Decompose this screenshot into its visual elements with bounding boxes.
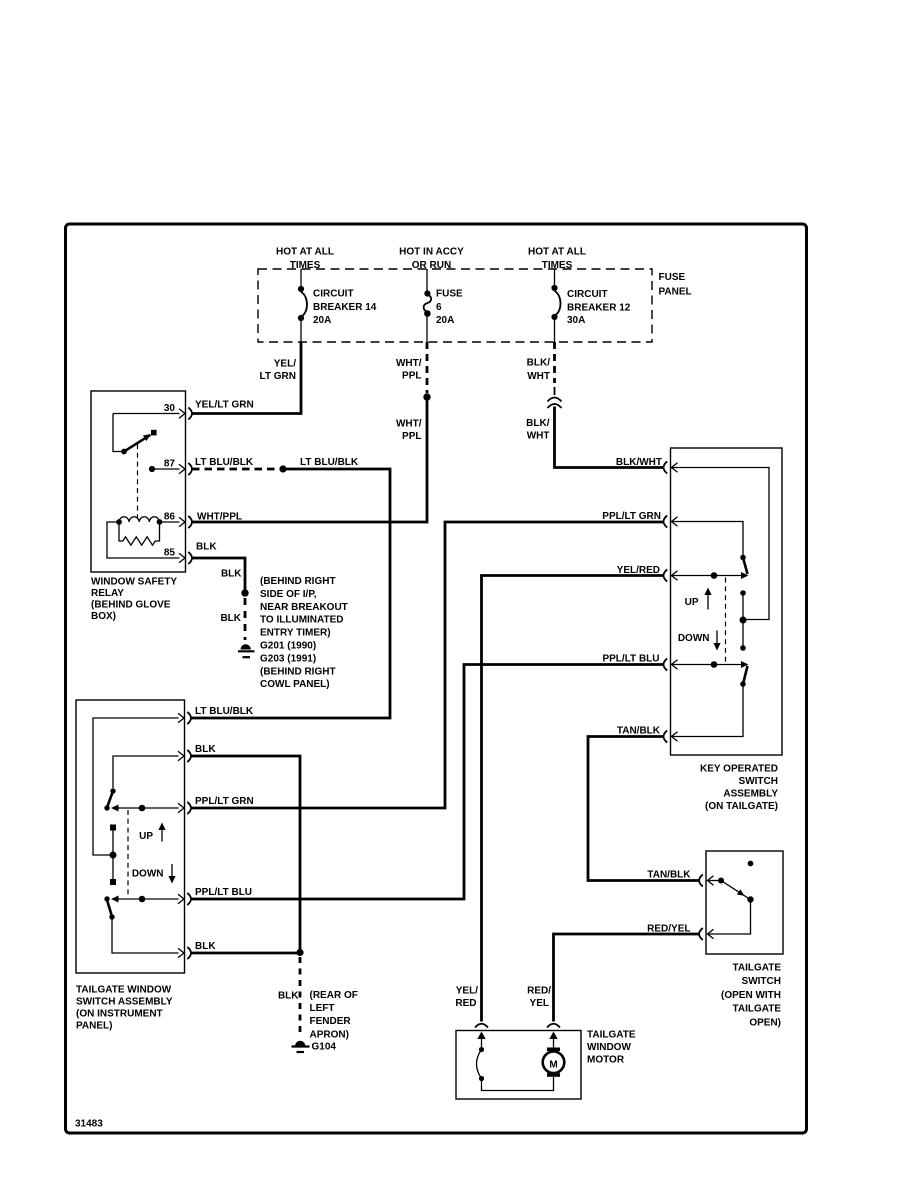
svg-text:(ON TAILGATE): (ON TAILGATE) (705, 801, 778, 812)
wire LT BLU/BLK from relay pin 87 (191, 457, 390, 718)
key UP arrow (685, 588, 712, 610)
svg-text:OPEN): OPEN) (749, 1017, 781, 1028)
svg-text:DOWN: DOWN (678, 633, 710, 644)
wire PPL/LT BLU from TWSA to key switch (191, 665, 663, 900)
svg-text:RED: RED (455, 998, 476, 1009)
svg-text:PPL: PPL (402, 371, 421, 382)
svg-text:YEL: YEL (530, 998, 549, 1009)
tailgate switch open contact dot (748, 861, 754, 867)
node HOT AT ALL TIMES (left feed) (276, 247, 334, 272)
svg-text:86: 86 (164, 512, 176, 523)
circuit breaker 12 30A (551, 269, 630, 342)
svg-text:PPL/LT BLU: PPL/LT BLU (602, 653, 659, 664)
tailgate switch box (706, 851, 783, 954)
svg-text:WHT/: WHT/ (396, 358, 422, 369)
TWSA pin BLK (lower) (112, 917, 216, 959)
relay switch blade (121, 430, 157, 455)
svg-text:WINDOW: WINDOW (587, 1042, 631, 1053)
ground G201/G203 (238, 644, 255, 657)
svg-text:BLK: BLK (220, 613, 241, 624)
svg-text:BLK: BLK (278, 990, 299, 1001)
svg-text:CIRCUIT: CIRCUIT (313, 288, 354, 299)
TWSA common bar (110, 825, 117, 886)
svg-text:HOT AT ALL: HOT AT ALL (276, 247, 334, 258)
tailgate window motor box (456, 1031, 581, 1100)
svg-text:TAILGATE WINDOW: TAILGATE WINDOW (76, 985, 172, 996)
motor connector RED/YEL (547, 1024, 560, 1028)
svg-text:PANEL: PANEL (659, 286, 692, 297)
svg-text:20A: 20A (313, 315, 331, 326)
TWSA UP arrow (139, 823, 166, 843)
svg-text:PPL/LT GRN: PPL/LT GRN (602, 511, 661, 522)
svg-text:BLK: BLK (195, 744, 216, 755)
motor left brush arm (477, 1032, 554, 1091)
ground note text G104 (310, 990, 358, 1041)
svg-text:WHT: WHT (527, 371, 550, 382)
key pin PPL/LT GRN (664, 516, 744, 556)
svg-text:30: 30 (164, 403, 176, 414)
wire WHT/PPL from fuse 6 to relay pin 86 (191, 342, 431, 522)
svg-text:85: 85 (164, 548, 176, 559)
svg-text:YEL/: YEL/ (274, 359, 296, 370)
ground G104 (292, 1041, 337, 1053)
key operated switch assembly box (671, 448, 783, 755)
relay mechanical link (137, 444, 139, 518)
svg-text:HOT IN ACCY: HOT IN ACCY (399, 247, 464, 258)
svg-text:YEL/LT GRN: YEL/LT GRN (195, 399, 254, 410)
relay pin 87 (149, 458, 192, 475)
svg-text:KEY OPERATED: KEY OPERATED (700, 764, 778, 775)
svg-text:FUSE: FUSE (436, 288, 463, 299)
svg-text:APRON): APRON) (310, 1029, 349, 1040)
svg-text:TIMES: TIMES (542, 260, 573, 271)
tailgate window switch assembly box (76, 700, 185, 973)
relay coil (116, 517, 179, 525)
svg-text:G203 (1991): G203 (1991) (260, 653, 316, 664)
key common bar (740, 590, 747, 651)
svg-text:(REAR OF: (REAR OF (310, 990, 358, 1001)
svg-text:SWITCH: SWITCH (742, 976, 781, 987)
TWSA upper switch blade (104, 788, 115, 810)
svg-text:BLK: BLK (195, 941, 216, 952)
svg-text:CIRCUIT: CIRCUIT (567, 289, 608, 300)
svg-text:NEAR BREAKOUT: NEAR BREAKOUT (260, 602, 348, 613)
relay pin 30 (113, 403, 192, 452)
outer border frame (66, 224, 807, 1133)
svg-text:TO ILLUMINATED: TO ILLUMINATED (260, 615, 344, 626)
svg-text:PANEL): PANEL) (76, 1021, 112, 1032)
svg-text:LT GRN: LT GRN (260, 371, 296, 382)
svg-text:LEFT: LEFT (310, 1003, 335, 1014)
svg-text:TIMES: TIMES (290, 260, 321, 271)
svg-text:YEL/: YEL/ (456, 985, 478, 996)
svg-text:BLK/WHT: BLK/WHT (616, 457, 662, 468)
svg-text:G104: G104 (312, 1041, 337, 1052)
svg-text:DOWN: DOWN (132, 869, 164, 880)
relay pin 86 (164, 512, 192, 529)
label FUSE PANEL (659, 272, 692, 297)
svg-text:G201 (1990): G201 (1990) (260, 641, 316, 652)
svg-text:PPL/LT BLU: PPL/LT BLU (195, 887, 252, 898)
svg-text:(OPEN WITH: (OPEN WITH (721, 990, 781, 1001)
svg-text:(BEHIND RIGHT: (BEHIND RIGHT (260, 576, 336, 587)
motor caption (587, 1029, 636, 1065)
svg-text:TAN/BLK: TAN/BLK (617, 725, 661, 736)
svg-text:COWL PANEL): COWL PANEL) (260, 679, 330, 690)
svg-text:6: 6 (436, 302, 442, 313)
svg-text:HOT AT ALL: HOT AT ALL (528, 247, 586, 258)
svg-text:FUSE: FUSE (659, 272, 686, 283)
relay resistor (parallel with coil) (119, 522, 160, 545)
motor connector YEL/RED (475, 1024, 488, 1028)
svg-text:TAILGATE: TAILGATE (732, 1004, 781, 1015)
svg-text:SWITCH ASSEMBLY: SWITCH ASSEMBLY (76, 997, 173, 1008)
svg-text:WHT: WHT (527, 430, 550, 441)
svg-text:30A: 30A (567, 315, 585, 326)
relay K1 window safety relay box (91, 391, 186, 572)
svg-text:BLK/: BLK/ (526, 418, 550, 429)
wire TAN/BLK from key switch to tailgate switch (588, 725, 699, 880)
svg-text:FENDER: FENDER (310, 1016, 352, 1027)
circuit breaker 14 20A (298, 269, 377, 342)
svg-text:UP: UP (685, 597, 699, 608)
svg-text:BOX): BOX) (91, 611, 116, 622)
TWSA pin BLK (upper) (113, 744, 216, 788)
tailgate switch pin RED/YEL (699, 900, 750, 941)
key pin TAN/BLK (664, 684, 744, 743)
node HOT AT ALL TIMES (right feed) (528, 247, 586, 272)
key upper switch blade (740, 555, 747, 574)
svg-text:BREAKER 12: BREAKER 12 (567, 303, 631, 314)
key pin PPL/LT BLU (664, 659, 749, 671)
TWSA mechanical link (127, 810, 129, 897)
svg-text:BLK/: BLK/ (527, 358, 551, 369)
svg-text:TAILGATE: TAILGATE (732, 963, 781, 974)
svg-text:87: 87 (164, 458, 176, 469)
svg-text:LT BLU/BLK: LT BLU/BLK (195, 706, 254, 717)
svg-text:TAN/BLK: TAN/BLK (647, 869, 691, 880)
key pin YEL/RED (664, 570, 749, 582)
svg-text:(BEHIND GLOVE: (BEHIND GLOVE (91, 600, 171, 611)
svg-text:(ON INSTRUMENT: (ON INSTRUMENT (76, 1009, 163, 1020)
svg-text:UP: UP (139, 831, 153, 842)
wire PPL/LT GRN from TWSA to key switch (191, 522, 663, 808)
wire BLK from relay pin 85 to ground G201 (192, 542, 249, 641)
tailgate window switch assembly caption (76, 985, 173, 1032)
wire RED/YEL from tailgate switch to motor (527, 923, 699, 1021)
node HOT IN ACCY OR RUN (middle feed) (399, 247, 464, 272)
svg-text:ASSEMBLY: ASSEMBLY (723, 789, 778, 800)
svg-text:20A: 20A (436, 315, 454, 326)
TWSA pin PPL/LT GRN (111, 796, 254, 814)
key pin BLK/WHT (664, 462, 770, 620)
svg-text:LT BLU/BLK: LT BLU/BLK (300, 457, 359, 468)
svg-text:SIDE OF I/P,: SIDE OF I/P, (260, 589, 317, 600)
svg-text:(BEHIND RIGHT: (BEHIND RIGHT (260, 666, 336, 677)
svg-text:SWITCH: SWITCH (739, 776, 778, 787)
key lower switch blade (740, 666, 747, 687)
fuse 6 20A (424, 269, 463, 342)
svg-text:WINDOW SAFETY: WINDOW SAFETY (91, 577, 177, 588)
tailgate switch pin TAN/BLK (699, 875, 724, 887)
svg-text:RED/: RED/ (527, 985, 551, 996)
TWSA lower switch blade (104, 896, 114, 919)
key switch caption (700, 764, 778, 813)
svg-text:WHT/PPL: WHT/PPL (197, 512, 242, 523)
svg-text:MOTOR: MOTOR (587, 1054, 625, 1065)
wire YEL/LT GRN from breaker 14 to relay pin 30 (192, 342, 301, 414)
svg-text:OR RUN: OR RUN (412, 260, 451, 271)
relay pin 85 (107, 522, 192, 564)
svg-text:ENTRY TIMER): ENTRY TIMER) (260, 628, 331, 639)
svg-text:TAILGATE: TAILGATE (587, 1029, 636, 1040)
wire YEL/RED from key switch to motor (455, 565, 663, 1022)
key DOWN arrow (678, 631, 721, 651)
svg-text:PPL: PPL (402, 431, 421, 442)
TWSA pin PPL/LT BLU (111, 887, 252, 905)
key mechanical link (725, 578, 727, 664)
ground note text G201 (260, 576, 348, 690)
TWSA pin LT BLU/BLK (93, 706, 254, 855)
wire BLK from TWSA pins to ground G104 (191, 756, 304, 1036)
wire BLK/WHT from breaker 12 to key switch pin BLK/WHT (526, 342, 663, 468)
svg-text:BLK: BLK (196, 542, 217, 553)
svg-text:M: M (549, 1059, 557, 1070)
svg-text:PPL/LT GRN: PPL/LT GRN (195, 796, 254, 807)
relay caption (91, 577, 177, 623)
svg-text:BREAKER 14: BREAKER 14 (313, 302, 377, 313)
TWSA DOWN arrow (132, 864, 176, 884)
tailgate switch caption (721, 963, 781, 1029)
tailgate switch blade (721, 881, 754, 903)
motor M1 (543, 1032, 565, 1077)
svg-text:LT BLU/BLK: LT BLU/BLK (195, 457, 254, 468)
svg-text:RELAY: RELAY (91, 588, 124, 599)
svg-text:BLK: BLK (221, 568, 242, 579)
svg-text:31483: 31483 (75, 1119, 103, 1130)
fuse panel dashed box (258, 269, 652, 342)
svg-text:WHT/: WHT/ (396, 419, 422, 430)
